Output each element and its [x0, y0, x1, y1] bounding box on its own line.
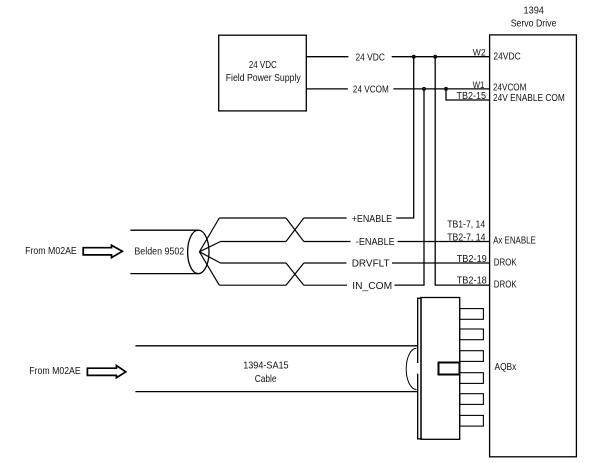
svg-text:24VCOM: 24VCOM: [493, 82, 526, 93]
connector pin 5: [460, 394, 484, 405]
wire IN_COM run before twist: [219, 284, 286, 286]
svg-text:+ENABLE: +ENABLE: [352, 214, 393, 225]
svg-text:Field Power Supply: Field Power Supply: [226, 73, 302, 84]
block arrow (bottom): [87, 366, 125, 378]
wire vertical 24VCOM to IN_COM: [423, 89, 425, 285]
svg-text:AQBx: AQBx: [495, 362, 517, 373]
svg-text:TB2-15: TB2-15: [457, 91, 487, 102]
wire DRVFLT run before twist: [221, 262, 287, 264]
connector pin 3: [460, 351, 484, 362]
cable Belden 9502 outline bottom: [130, 273, 198, 275]
svg-text:DROK: DROK: [494, 280, 517, 291]
svg-text:24VDC: 24VDC: [493, 52, 520, 63]
wire IN_COM to 24VCOM vertical: [395, 284, 425, 286]
svg-text:DRVFLT: DRVFLT: [352, 259, 390, 270]
connector J1 body: [421, 298, 460, 440]
svg-text:W2: W2: [473, 47, 486, 57]
twist crossing pair 1: [286, 218, 304, 242]
power supply PS1 box: [219, 35, 307, 111]
wire +ENABLE run before twist: [219, 217, 286, 219]
cable 1394-SA15 outline bottom: [135, 391, 417, 393]
junction dot on 24VCOM at x=446: [444, 87, 448, 91]
wire TB2-15 jog to 24V ENABLE COM pin: [446, 89, 490, 100]
connector J1 flange: [418, 298, 421, 440]
svg-text:24V ENABLE COM: 24V ENABLE COM: [493, 93, 565, 104]
svg-text:24 VDC: 24 VDC: [249, 60, 277, 71]
svg-text:1394: 1394: [524, 6, 545, 17]
wire TB2-18 to DROK pin: [435, 284, 490, 286]
twist crossing pair 2: [286, 263, 304, 285]
junction dot on 24VCOM at x=424: [422, 87, 426, 91]
wire vertical 24VDC to +ENABLE: [413, 57, 415, 218]
servo drive title: [511, 6, 557, 30]
cable end ellipse: [188, 230, 209, 274]
wire 24VDC net: [306, 56, 489, 58]
svg-text:-ENABLE: -ENABLE: [356, 237, 395, 248]
svg-text:TB1-7, 14: TB1-7, 14: [447, 220, 486, 231]
svg-text:Cable: Cable: [255, 374, 277, 385]
svg-text:TB2-7, 14: TB2-7, 14: [447, 233, 486, 244]
svg-text:TB2-18: TB2-18: [457, 276, 487, 287]
svg-text:DROK: DROK: [494, 258, 517, 269]
svg-text:1394-SA15: 1394-SA15: [243, 361, 289, 372]
cable 1394-SA15 outline top: [135, 345, 417, 347]
fan-out wires from cable: [199, 218, 220, 285]
connector pin 6: [460, 415, 484, 426]
wire DRVFLT to label: [304, 262, 347, 264]
svg-text:24 VCOM: 24 VCOM: [353, 85, 389, 96]
wire +ENABLE to label: [304, 217, 347, 219]
connector pin 2: [460, 329, 484, 340]
cable boot arc: [406, 348, 416, 389]
svg-text:Ax ENABLE: Ax ENABLE: [493, 236, 536, 247]
label 1394-SA15 Cable: [243, 361, 289, 385]
power supply label: [226, 60, 302, 84]
svg-text:From M02AE: From M02AE: [25, 246, 77, 257]
wire +ENABLE to 24VDC vertical: [396, 217, 414, 219]
wire IN_COM to label: [304, 284, 347, 286]
svg-text:24 VDC: 24 VDC: [356, 52, 385, 63]
connector pin 1: [460, 309, 484, 320]
svg-text:Servo Drive: Servo Drive: [511, 19, 557, 30]
wire vertical 24VDC to TB2-18: [434, 57, 436, 285]
wire DRVFLT to DROK pin: [392, 262, 490, 264]
wire -ENABLE to label: [304, 241, 351, 243]
junction dot on 24VDC at x=435.2: [433, 55, 437, 59]
connector key: [439, 363, 460, 375]
junction dot on 24VDC at x=413.7: [412, 55, 416, 59]
wire -ENABLE to Ax ENABLE pin: [398, 241, 490, 243]
wire 24VCOM net: [306, 88, 489, 90]
svg-text:From M02AE: From M02AE: [29, 366, 81, 377]
wire -ENABLE run before twist: [221, 241, 287, 243]
servo drive U1 box: [490, 35, 577, 457]
cable Belden 9502 outline top: [130, 229, 198, 231]
svg-text:W1: W1: [473, 80, 485, 90]
connector pin 4: [460, 373, 484, 384]
svg-text:Belden 9502: Belden 9502: [134, 247, 184, 258]
block arrow (top): [83, 245, 122, 257]
svg-text:TB2-19: TB2-19: [457, 254, 487, 265]
svg-text:IN_COM: IN_COM: [352, 281, 392, 292]
